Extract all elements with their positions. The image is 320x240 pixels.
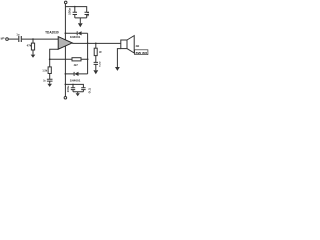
wire input to C1 [8, 38, 18, 40]
wire V- vertical [64, 46, 66, 97]
svg-text:0.1: 0.1 [87, 11, 90, 17]
wire top rail [65, 7, 86, 13]
svg-text:1N4001: 1N4001 [70, 79, 81, 82]
ground zobel [93, 70, 98, 74]
svg-text:8W 8R: 8W 8R [136, 51, 149, 55]
wire caps join [75, 15, 87, 24]
svg-text:I/P: I/P [1, 37, 5, 41]
label badge box [135, 50, 148, 55]
svg-text:4k7: 4k7 [74, 63, 79, 67]
svg-text:100u: 100u [67, 85, 70, 92]
svg-text:0.22: 0.22 [100, 61, 102, 67]
ground feedback cap [47, 84, 52, 87]
wire V+ vertical [64, 4, 66, 40]
capacitor C2 plates [73, 12, 77, 14]
speaker box [121, 40, 127, 49]
capacitor C7 plates [81, 88, 85, 90]
svg-text:1R: 1R [99, 51, 102, 54]
ground top caps [78, 23, 83, 27]
svg-text:0.1: 0.1 [89, 87, 92, 93]
ground input [31, 55, 36, 58]
diode D1 wires [65, 32, 87, 34]
svg-text:47k: 47k [27, 44, 32, 48]
svg-text:2u: 2u [43, 78, 46, 82]
capacitor C2 100u lead [74, 7, 76, 13]
wire inverting pin stub [50, 49, 59, 59]
capacitor C3 plates [85, 12, 89, 14]
diode D2 triangle [74, 72, 78, 76]
wire C1 to op-amp [22, 38, 58, 40]
speaker wires [117, 49, 120, 67]
ground bottom caps [76, 93, 80, 96]
resistor R1 47k [32, 39, 34, 43]
wire output horizontal [72, 42, 121, 44]
svg-text:100u: 100u [69, 8, 72, 15]
svg-text:TDA2030: TDA2030 [45, 31, 59, 35]
wire feedback bus [50, 58, 88, 60]
capacitor C6 plates [71, 88, 75, 90]
power terminal top [64, 1, 67, 4]
diode D1 cathode bar [76, 31, 78, 35]
diode D1 triangle [77, 31, 81, 35]
resistor R4 1R zobel [95, 43, 97, 48]
wire bottom rail [65, 84, 83, 87]
diode D2 cathode bar [73, 72, 75, 76]
capacitor C5 plates [94, 62, 98, 64]
diode D2 wires [65, 73, 87, 75]
junction dots [32, 38, 34, 40]
capacitor C4 22u plates [47, 79, 53, 81]
power terminal bottom [64, 96, 67, 99]
ground speaker [115, 67, 120, 71]
wire output bus vertical [87, 33, 89, 74]
resistor R3 4k7 [72, 58, 81, 61]
op-amp U1 TDA2030 body [58, 37, 72, 50]
svg-text:1N4001: 1N4001 [70, 36, 81, 39]
svg-text:1.5k: 1.5k [42, 68, 47, 72]
resistor R2 15k [49, 59, 51, 67]
wire bottom caps join [73, 90, 83, 94]
svg-text:4Ω: 4Ω [136, 44, 141, 48]
capacitor C6 lead [72, 84, 74, 87]
svg-text:1u: 1u [16, 32, 19, 36]
input terminal I/P [6, 38, 9, 41]
capacitor C1 1u plates [19, 36, 22, 42]
speaker cone [127, 36, 134, 53]
